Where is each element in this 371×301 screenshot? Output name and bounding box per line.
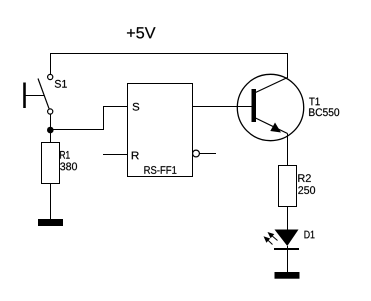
label 380 <box>60 163 77 171</box>
wire +5V rail <box>50 53 288 55</box>
label S1 <box>55 80 67 88</box>
LED D1 light arrow lower <box>264 236 273 244</box>
pin label R <box>132 152 139 160</box>
wire inverted output stub <box>200 153 217 155</box>
transistor T1 collector line <box>256 78 288 93</box>
transistor T1 emitter line <box>256 118 288 134</box>
label 250 <box>298 186 315 194</box>
switch S1 bottom terminal <box>48 109 53 114</box>
inverted output bubble <box>193 150 200 157</box>
label BC550 <box>309 108 339 116</box>
label T1 <box>309 98 320 106</box>
transistor T1 body circle <box>237 74 303 140</box>
wire rail to switch S1 top <box>50 53 52 75</box>
switch S1 pushrod <box>25 95 45 97</box>
resistor R2 body <box>279 166 297 207</box>
flip-flop U1 box RS-FF1 <box>128 84 193 177</box>
node A junction dot <box>47 127 54 134</box>
switch S1 lever <box>38 79 49 109</box>
label D1 <box>305 231 315 239</box>
wire emitter to R2 <box>287 134 289 166</box>
ground below LED <box>275 272 300 279</box>
wire R2 to LED <box>287 207 289 230</box>
LED D1 light arrow upper <box>268 232 278 241</box>
switch S1 top terminal <box>48 74 53 79</box>
pin label S <box>133 103 140 111</box>
wire R input stub <box>103 154 128 156</box>
wire node A to S input <box>51 107 129 130</box>
switch S1 button plate <box>23 83 26 109</box>
label +5V <box>127 27 156 38</box>
wire rail to transistor collector <box>287 53 289 78</box>
wire R1 to ground <box>50 183 52 219</box>
label RS-FF1 <box>144 166 176 174</box>
LED D1 cathode bar <box>274 248 299 250</box>
wire LED to ground <box>287 246 289 272</box>
resistor R1 body <box>42 143 60 184</box>
wire switch to node A <box>50 114 52 143</box>
wire Q output to base <box>192 106 252 108</box>
ground below R1 <box>38 219 63 226</box>
LED D1 triangle <box>275 230 299 247</box>
transistor T1 emitter arrowhead <box>270 123 281 133</box>
label R2 <box>298 174 311 182</box>
transistor T1 base bar <box>252 89 257 122</box>
label R1 <box>60 151 69 159</box>
